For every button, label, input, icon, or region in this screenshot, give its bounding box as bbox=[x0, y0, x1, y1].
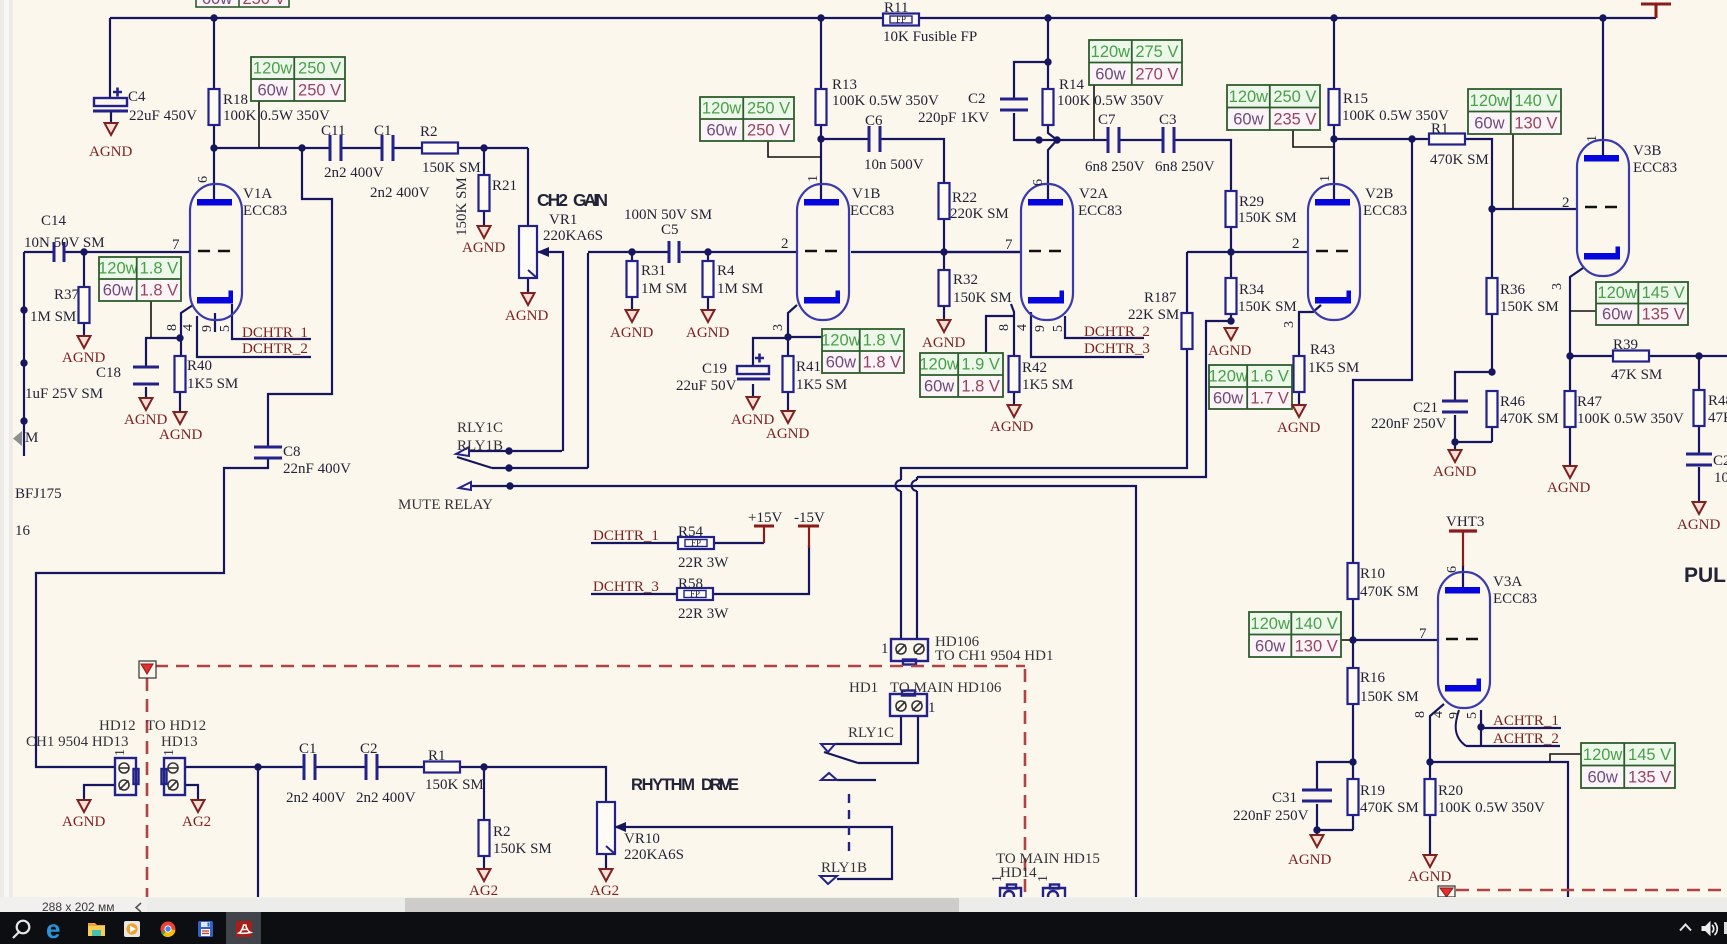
svg-text:RLY1B: RLY1B bbox=[457, 438, 503, 454]
ground AGND C4 bbox=[105, 123, 118, 135]
svg-text:470K SM: 470K SM bbox=[1430, 152, 1489, 168]
wire RHYTHM DRIVE to RLY1B bbox=[622, 827, 892, 879]
svg-text:250 V: 250 V bbox=[1273, 88, 1316, 106]
svg-text:AGND: AGND bbox=[686, 325, 729, 341]
wire C11 to C1 bbox=[341, 147, 382, 149]
wire R54 to +15V bbox=[713, 542, 764, 544]
svg-text:R46: R46 bbox=[1500, 394, 1526, 410]
wire R32 to ground bbox=[943, 305, 945, 320]
svg-text:R43: R43 bbox=[1310, 342, 1335, 358]
wire table T2 pointer bbox=[150, 301, 152, 338]
taskbar active app highlight bbox=[226, 912, 261, 944]
wire R22 to R32 bbox=[943, 218, 945, 270]
taskbar tray chevron bbox=[1680, 925, 1691, 931]
wire V1B to V2A grid link bbox=[851, 251, 1021, 253]
svg-text:140 V: 140 V bbox=[1295, 615, 1338, 633]
svg-text:CH1 9504 HD13: CH1 9504 HD13 bbox=[26, 734, 129, 750]
table node V1B cathode voltages bbox=[821, 329, 904, 373]
table node V3B grid voltages bbox=[1468, 89, 1561, 134]
resistor R2 (rhythm) bbox=[479, 820, 490, 856]
wire R31 to ground bbox=[631, 296, 633, 310]
svg-text:ECC83: ECC83 bbox=[1363, 203, 1407, 219]
resistor R37 bbox=[79, 287, 90, 323]
svg-text:DCHTR_2: DCHTR_2 bbox=[1084, 324, 1150, 340]
wire C6 to R22 bbox=[881, 139, 944, 183]
svg-text:60w: 60w bbox=[1474, 115, 1504, 133]
resistor R46 bbox=[1487, 391, 1498, 427]
svg-text:130 V: 130 V bbox=[1514, 115, 1557, 133]
svg-text:10n 500V: 10n 500V bbox=[864, 157, 924, 173]
svg-text:9: 9 bbox=[200, 325, 215, 332]
svg-text:C7: C7 bbox=[1098, 112, 1116, 128]
svg-text:R22: R22 bbox=[952, 190, 977, 206]
wire R37 to ground bbox=[83, 322, 85, 336]
pin HD1-2 bbox=[896, 701, 906, 711]
svg-text:R48: R48 bbox=[1708, 393, 1727, 409]
wire DCHTR_3 to R58 bbox=[591, 593, 678, 595]
svg-text:+15V: +15V bbox=[748, 510, 782, 526]
wire R187 tee bbox=[1187, 251, 1231, 253]
table node V2A cathode voltages bbox=[919, 353, 1003, 397]
wire R4 to ground bbox=[707, 296, 709, 310]
junction node R14/C2 bbox=[1044, 58, 1051, 65]
wire node to C7 bbox=[1039, 139, 1108, 141]
wire DCHTR_1 to R54 bbox=[591, 542, 678, 544]
connector HD1 bbox=[890, 691, 927, 717]
capacitor C11 bbox=[330, 135, 341, 161]
wire V2A cathode pin 8 bbox=[1011, 304, 1014, 356]
connector HD106 bbox=[891, 639, 928, 665]
svg-text:AGND: AGND bbox=[1677, 517, 1720, 533]
pin HD12-2 bbox=[119, 780, 129, 790]
wire to V3A grid bbox=[1353, 639, 1437, 641]
resistor R14 bbox=[1043, 89, 1054, 125]
connector HD14 left half bbox=[1000, 885, 1021, 902]
svg-text:150K SM: 150K SM bbox=[422, 160, 481, 176]
taskbar search icon bbox=[13, 921, 29, 938]
svg-text:8: 8 bbox=[165, 324, 180, 331]
pin HD12-1 bbox=[119, 763, 129, 773]
svg-text:1.8 V: 1.8 V bbox=[140, 260, 179, 278]
svg-text:R2: R2 bbox=[493, 824, 511, 840]
svg-text:8: 8 bbox=[1413, 711, 1428, 718]
junction node C5/R4 bbox=[704, 248, 711, 255]
wire C31 bottom bbox=[1316, 804, 1318, 830]
relay RLY1B right contact bbox=[820, 876, 837, 884]
junction node R15 bottom bbox=[1330, 135, 1337, 142]
wire main HT bus bbox=[110, 17, 1656, 19]
pin HD106-1 bbox=[896, 644, 906, 654]
table node V1A anode voltages bbox=[251, 57, 345, 101]
svg-text:M: M bbox=[25, 430, 38, 446]
svg-text:2n2 400V: 2n2 400V bbox=[370, 185, 430, 201]
ground AGND R37 bbox=[78, 336, 91, 348]
svg-text:C18: C18 bbox=[96, 365, 121, 381]
wire table T11 pointer bbox=[986, 316, 1014, 353]
table node V3A cathode voltages bbox=[1581, 743, 1675, 788]
svg-text:4: 4 bbox=[1015, 324, 1030, 331]
wire R41 to ground bbox=[787, 391, 789, 411]
svg-text:120w: 120w bbox=[1229, 88, 1269, 106]
svg-text:MUTE RELAY: MUTE RELAY bbox=[398, 497, 493, 513]
capacitor C5 bbox=[669, 241, 679, 263]
junction node RLY1B arm out bbox=[505, 464, 512, 471]
taskbar save icon bbox=[198, 921, 213, 937]
power rail +15V bbox=[754, 526, 774, 543]
svg-text:7: 7 bbox=[1419, 626, 1427, 642]
svg-text:250 V: 250 V bbox=[298, 82, 341, 100]
wire R2 to AG2 bbox=[483, 854, 485, 869]
svg-text:3: 3 bbox=[1550, 283, 1565, 290]
svg-text:FP: FP bbox=[896, 15, 906, 25]
viewer sidebar collapse arrow bbox=[13, 431, 22, 446]
table node R14 voltages bbox=[1089, 40, 1182, 85]
svg-text:5: 5 bbox=[1465, 712, 1480, 719]
svg-text:60w: 60w bbox=[706, 122, 736, 140]
ground AG2 R2 bbox=[478, 869, 491, 881]
svg-text:150K SM: 150K SM bbox=[1500, 299, 1559, 315]
wire HD13 pin 1 out bbox=[184, 766, 258, 768]
resistor R1 (rhythm) bbox=[424, 762, 460, 773]
wire cathode to R39 bbox=[1570, 355, 1613, 357]
svg-text:C3: C3 bbox=[1159, 112, 1177, 128]
svg-text:1: 1 bbox=[1585, 135, 1600, 142]
svg-text:AGND: AGND bbox=[1433, 464, 1476, 480]
junction node R14 bottom bbox=[1053, 136, 1060, 143]
junction node C2 bottom bbox=[1035, 136, 1042, 143]
wire table T1 pointer bbox=[258, 101, 260, 148]
junction node left edge c bbox=[20, 417, 27, 424]
svg-text:1M SM: 1M SM bbox=[641, 281, 687, 297]
svg-text:100K 0.5W 350V: 100K 0.5W 350V bbox=[1057, 93, 1164, 109]
wire to R48 bbox=[1698, 356, 1700, 390]
wire C1 to R2 bbox=[393, 147, 422, 149]
svg-text:1.9 V: 1.9 V bbox=[961, 356, 1000, 374]
svg-text:AGND: AGND bbox=[505, 308, 548, 324]
wire C2 to lower node bbox=[1014, 113, 1039, 140]
wire V2A pin 4 to DCHTR_3 bbox=[1031, 312, 1144, 357]
svg-text:V2B: V2B bbox=[1365, 186, 1393, 202]
svg-text:145 V: 145 V bbox=[1642, 284, 1685, 302]
svg-text:220pF 1KV: 220pF 1KV bbox=[918, 110, 989, 126]
wire to V2B grid bbox=[1231, 251, 1308, 253]
svg-text:250 V: 250 V bbox=[747, 122, 790, 140]
svg-text:AGND: AGND bbox=[62, 350, 105, 366]
wire RLY1C arm bbox=[824, 752, 858, 763]
resistor R54 fusible bbox=[678, 537, 714, 549]
svg-text:10n: 10n bbox=[1714, 470, 1727, 486]
svg-text:270 V: 270 V bbox=[1135, 66, 1178, 84]
wire HD13 net down bbox=[257, 767, 259, 897]
svg-text:R39: R39 bbox=[1613, 337, 1638, 353]
svg-text:5: 5 bbox=[1051, 325, 1066, 332]
wire to R36 bbox=[1491, 209, 1493, 278]
svg-text:120w: 120w bbox=[253, 60, 293, 78]
board corner marker top-left bbox=[139, 661, 156, 678]
junction node HT/R14 bbox=[1044, 14, 1051, 21]
tube V2A ECC83 bbox=[1021, 184, 1073, 320]
svg-text:1K5 SM: 1K5 SM bbox=[1022, 377, 1073, 393]
wire to R4 bbox=[707, 252, 709, 261]
resistor R43 bbox=[1294, 356, 1305, 392]
capacitor C8 bbox=[254, 447, 282, 458]
wire V2B cathode pin 3 bbox=[1299, 305, 1321, 356]
potentiometer VR10 bbox=[597, 802, 626, 854]
resistor R10 bbox=[1348, 563, 1359, 599]
svg-text:C22: C22 bbox=[1713, 453, 1727, 469]
svg-text:R13: R13 bbox=[832, 77, 857, 93]
svg-text:60w: 60w bbox=[103, 282, 133, 300]
ground AGND C31 bbox=[1311, 835, 1324, 847]
svg-text:100K 0.5W 350V: 100K 0.5W 350V bbox=[1577, 411, 1684, 427]
ground AGND C22 bbox=[1693, 502, 1706, 514]
svg-text:145 V: 145 V bbox=[1628, 746, 1671, 764]
svg-text:VR10: VR10 bbox=[624, 831, 660, 847]
resistor R16 bbox=[1348, 668, 1359, 704]
capacitor C2 (bottom) bbox=[366, 754, 377, 780]
resistor R41 bbox=[783, 356, 794, 392]
wire to R187 bbox=[1186, 252, 1188, 313]
resistor R11 fusible bbox=[883, 14, 919, 26]
svg-text:e: e bbox=[46, 914, 60, 944]
wire table T10 pointer bbox=[788, 336, 822, 338]
junction node C21/R46 gnd bbox=[1451, 438, 1458, 445]
junction node R2/R21 bbox=[480, 144, 487, 151]
svg-text:10K Fusible FP: 10K Fusible FP bbox=[883, 29, 977, 45]
pin HD13-1 bbox=[168, 763, 178, 773]
svg-text:2: 2 bbox=[781, 236, 789, 252]
resistor R31 bbox=[627, 261, 638, 297]
svg-text:100K 0.5W 350V: 100K 0.5W 350V bbox=[223, 108, 330, 124]
wire R21 to ground bbox=[483, 209, 485, 226]
svg-text:1: 1 bbox=[806, 175, 821, 182]
svg-text:2: 2 bbox=[1292, 236, 1300, 252]
taskbar Acrobat icon bbox=[236, 921, 252, 937]
resistor R39 bbox=[1613, 351, 1649, 362]
taskbar partial icon right edge bbox=[1724, 922, 1727, 934]
svg-text:DCHTR_3: DCHTR_3 bbox=[593, 579, 659, 595]
wire C18 to ground bbox=[145, 387, 147, 398]
svg-text:9: 9 bbox=[1447, 712, 1462, 719]
svg-text:6: 6 bbox=[1445, 566, 1460, 573]
svg-text:120w: 120w bbox=[98, 260, 138, 278]
svg-text:120w: 120w bbox=[702, 100, 742, 118]
svg-text:R18: R18 bbox=[223, 92, 248, 108]
svg-text:100K 0.5W 350V: 100K 0.5W 350V bbox=[1438, 800, 1545, 816]
svg-text:VR1: VR1 bbox=[549, 212, 577, 228]
ground AGND R34 bbox=[1225, 328, 1238, 340]
wire V3B cathode pin 3 bbox=[1570, 268, 1583, 391]
table node V3B cathode voltages bbox=[1596, 282, 1688, 325]
svg-text:C14: C14 bbox=[41, 213, 67, 229]
capacitor C2 (220pF) bbox=[1000, 99, 1028, 110]
capacitor C21 bbox=[1442, 401, 1468, 412]
capacitor C22 bbox=[1686, 454, 1712, 465]
wire R1 to node bbox=[460, 766, 484, 768]
svg-text:150K SM: 150K SM bbox=[1238, 210, 1297, 226]
wire table T6 pointer bbox=[1512, 134, 1514, 209]
svg-text:235 V: 235 V bbox=[1273, 111, 1316, 129]
svg-text:1: 1 bbox=[162, 749, 177, 756]
svg-text:BFJ175: BFJ175 bbox=[15, 486, 62, 502]
connector HD14 right half bbox=[1043, 885, 1065, 902]
svg-text:22R 3W: 22R 3W bbox=[678, 606, 729, 622]
svg-text:DCHTR_1: DCHTR_1 bbox=[242, 325, 308, 341]
junction node V3B cathode out bbox=[1566, 352, 1573, 359]
wire C21 bottom bbox=[1455, 415, 1492, 442]
wire R46 bottom bbox=[1491, 426, 1493, 442]
wire relay to grid riser bbox=[587, 253, 589, 468]
svg-text:6: 6 bbox=[196, 176, 211, 183]
svg-text:22K SM: 22K SM bbox=[1128, 307, 1179, 323]
svg-text:R20: R20 bbox=[1438, 783, 1463, 799]
wire V3B anode feed bbox=[1602, 18, 1604, 156]
svg-text:R42: R42 bbox=[1022, 360, 1047, 376]
relay RLY1C moving contact bbox=[459, 482, 471, 490]
svg-text:AGND: AGND bbox=[990, 419, 1033, 435]
svg-text:TO HD12: TO HD12 bbox=[146, 718, 206, 734]
wire R48 to C22 bbox=[1698, 425, 1700, 454]
wire V3A heater pin bbox=[1480, 710, 1482, 746]
wire node to C11 bbox=[214, 147, 330, 149]
junction node HD13 out bbox=[254, 763, 261, 770]
svg-text:1M SM: 1M SM bbox=[717, 281, 763, 297]
pin HD106-2 bbox=[914, 644, 924, 654]
wire R2 to VR1 corner bbox=[458, 147, 528, 149]
svg-text:1K5 SM: 1K5 SM bbox=[187, 376, 238, 392]
svg-text:60w: 60w bbox=[924, 378, 954, 396]
svg-text:C5: C5 bbox=[661, 222, 679, 238]
wire to R41 bbox=[787, 337, 789, 356]
svg-text:150K SM: 150K SM bbox=[493, 841, 552, 857]
svg-text:HD14: HD14 bbox=[1000, 865, 1037, 881]
svg-text:250 V: 250 V bbox=[242, 0, 285, 8]
wire left edge net bbox=[23, 252, 25, 456]
svg-text:R31: R31 bbox=[641, 263, 666, 279]
svg-text:R58: R58 bbox=[678, 576, 703, 592]
wire R15 to V2B anode bbox=[1333, 124, 1335, 201]
wire R29 to R34 bbox=[1230, 227, 1232, 278]
svg-text:250 V: 250 V bbox=[747, 100, 790, 118]
svg-text:V3A: V3A bbox=[1493, 574, 1522, 590]
svg-text:R11: R11 bbox=[884, 0, 908, 16]
resistor R40 bbox=[175, 356, 186, 392]
taskbar speaker icon bbox=[1702, 922, 1717, 935]
wire RLY1C contact stub bbox=[471, 485, 510, 487]
svg-text:R187: R187 bbox=[1144, 290, 1177, 306]
svg-text:AGND: AGND bbox=[462, 240, 505, 256]
svg-text:220KA6S: 220KA6S bbox=[624, 847, 684, 863]
svg-text:130 V: 130 V bbox=[1295, 638, 1338, 656]
wire mute relay bus bbox=[510, 486, 1136, 897]
svg-text:C8: C8 bbox=[283, 444, 301, 460]
svg-text:DCHTR_3: DCHTR_3 bbox=[1084, 341, 1150, 357]
wire C4 to ground bbox=[110, 112, 112, 123]
svg-text:ECC83: ECC83 bbox=[850, 203, 894, 219]
wire to R1 bbox=[1334, 138, 1429, 140]
viewer left edge strip bbox=[0, 0, 13, 897]
scrollbar thumb bbox=[405, 898, 959, 912]
svg-text:AGND: AGND bbox=[922, 335, 965, 351]
svg-text:120w: 120w bbox=[1208, 368, 1248, 386]
svg-text:60w: 60w bbox=[1587, 769, 1617, 787]
wire R19 bottom bbox=[1352, 815, 1354, 830]
wire V3A cathode out bbox=[1430, 762, 1568, 897]
svg-text:100N 50V SM: 100N 50V SM bbox=[624, 207, 712, 223]
relay RLY1B moving contact bbox=[456, 447, 469, 456]
wire C7 to C3 bbox=[1119, 139, 1162, 141]
resistor R4 bbox=[703, 261, 714, 297]
wire V1A pin 9 stub bbox=[214, 313, 216, 332]
svg-text:4: 4 bbox=[1431, 711, 1446, 718]
wire V3A heater pin curve bbox=[1456, 710, 1466, 746]
junction node R22/R32 grid bbox=[940, 248, 947, 255]
svg-text:RLY1B: RLY1B bbox=[821, 860, 867, 876]
wire node to ground bbox=[1454, 442, 1456, 450]
svg-text:220KA6S: 220KA6S bbox=[543, 228, 603, 244]
wire C1 to C2 bottom bbox=[316, 766, 366, 768]
svg-text:V2A: V2A bbox=[1079, 186, 1108, 202]
svg-text:C6: C6 bbox=[865, 113, 883, 129]
svg-text:6n8 250V: 6n8 250V bbox=[1085, 159, 1145, 175]
wire R18 top bbox=[213, 18, 215, 89]
wire hop over mute bus 2 bbox=[896, 480, 901, 491]
svg-text:C4: C4 bbox=[128, 89, 146, 105]
svg-text:VHT3: VHT3 bbox=[1446, 514, 1484, 530]
svg-text:135 V: 135 V bbox=[1642, 306, 1685, 324]
svg-text:60w: 60w bbox=[257, 82, 287, 100]
resistor R18 bbox=[209, 89, 220, 125]
svg-text:C2: C2 bbox=[360, 741, 378, 757]
svg-text:R41: R41 bbox=[796, 359, 821, 375]
junction node R29/R34 bbox=[1227, 248, 1234, 255]
wire to R14 bbox=[1047, 62, 1049, 89]
wire RLY1B upper contact bbox=[469, 450, 562, 452]
wire R47 to ground bbox=[1569, 426, 1571, 466]
wire table T8 pointer bbox=[1341, 639, 1353, 641]
wire RLY1B to grid riser bbox=[492, 467, 588, 469]
taskbar bbox=[0, 912, 1727, 944]
junction node RLY1C contact bbox=[506, 482, 513, 489]
svg-text:1M SM: 1M SM bbox=[30, 309, 76, 325]
tube V3A ECC83 bbox=[1438, 572, 1490, 708]
wire R16 to R19 bbox=[1352, 704, 1354, 779]
wire table T9 pointer bbox=[1550, 754, 1581, 762]
wire to HD106 pin 2 bbox=[916, 491, 918, 638]
ground AGND C19 bbox=[747, 397, 760, 409]
wire grid node left bbox=[588, 251, 669, 253]
connector HD12 bbox=[115, 758, 139, 795]
resistor R34 bbox=[1226, 278, 1237, 314]
svg-text:R1: R1 bbox=[1431, 121, 1449, 137]
svg-text:C1: C1 bbox=[299, 741, 317, 757]
svg-text:C21: C21 bbox=[1413, 400, 1438, 416]
wire R18 bottom bbox=[213, 124, 215, 148]
svg-text:HD1: HD1 bbox=[849, 680, 878, 696]
wire table T5 pointer bbox=[1293, 130, 1334, 147]
svg-text:C11: C11 bbox=[321, 123, 345, 139]
wire to R16 bbox=[1352, 640, 1354, 668]
svg-text:ECC83: ECC83 bbox=[243, 203, 287, 219]
ground AG2 VR10 bbox=[600, 869, 613, 881]
svg-text:220nF 250V: 220nF 250V bbox=[1233, 808, 1309, 824]
svg-text:R2: R2 bbox=[420, 124, 438, 140]
svg-text:7: 7 bbox=[1005, 237, 1013, 253]
capacitor C3 bbox=[1163, 127, 1174, 153]
wire V1B cathode pin 3 bbox=[788, 305, 797, 337]
junction node R36/R46 bbox=[1488, 368, 1495, 375]
pin HD13-2 bbox=[168, 780, 178, 790]
